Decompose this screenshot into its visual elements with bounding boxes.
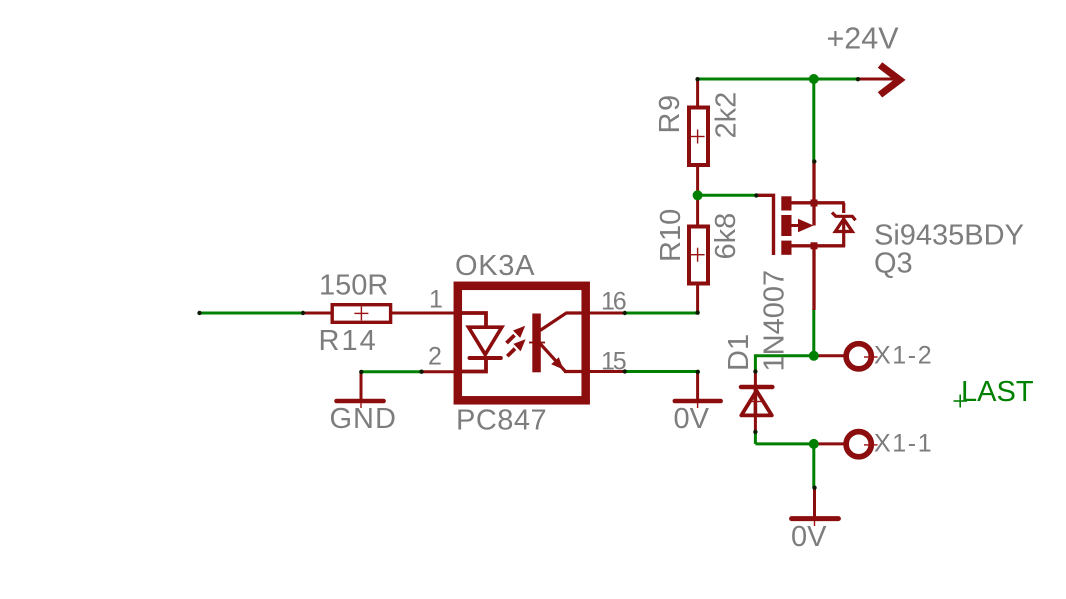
wire X1-1 node down to 0V: [812, 444, 815, 488]
wire red 0V pin left: [696, 372, 699, 401]
svg-text:15: 15: [601, 348, 626, 376]
connector pad X1-2: [846, 344, 871, 369]
svg-text:D1: D1: [723, 334, 755, 371]
svg-text:16: 16: [601, 288, 626, 316]
LED inside optocoupler: [461, 313, 486, 328]
wire red R14 right lead / opto pin1: [392, 312, 456, 315]
transistor inside optocoupler: [532, 314, 541, 373]
svg-text:6k8: 6k8: [710, 213, 742, 260]
svg-text:0V: 0V: [791, 521, 827, 553]
wire pin15 to 0V: [625, 370, 698, 373]
wire red opto pin15 stub: [589, 370, 625, 373]
MOSFET source line: [792, 201, 845, 204]
supply 0V symbol bottom: [792, 516, 839, 521]
MOSFET junction squares: [811, 200, 818, 207]
wire red D1 anode pin: [754, 414, 757, 432]
resistor R9: [689, 108, 708, 166]
svg-text:2k2: 2k2: [711, 92, 743, 139]
light arrow 1: [507, 335, 515, 343]
node junction dot X1-2: [809, 351, 819, 361]
svg-text:OK3A: OK3A: [455, 250, 535, 282]
wire red R14 left lead: [302, 312, 331, 315]
svg-text:PC847: PC847: [456, 405, 547, 437]
wire input net left: [198, 312, 303, 315]
svg-text:0V: 0V: [674, 403, 710, 435]
svg-text:150R: 150R: [319, 270, 388, 302]
svg-text:1: 1: [429, 286, 443, 314]
svg-text:R9: R9: [654, 93, 686, 133]
wire red X1-2 stub: [815, 354, 845, 357]
svg-text:GND: GND: [330, 403, 397, 435]
wire D1 anode vertical: [754, 432, 757, 444]
connector pad X1-1: [846, 432, 871, 457]
wire red R10 top pin: [696, 195, 699, 225]
wire Q3 drain down: [812, 309, 815, 356]
diode D1 1N4007: [741, 385, 773, 389]
MOSFET channel bars: [781, 196, 791, 210]
svg-text:2: 2: [428, 343, 442, 371]
transistor Q3: P-MOSFET gate lead: [756, 195, 774, 255]
wire red 0V bottom pin: [813, 488, 816, 517]
wire red Q3 drain pin: [812, 245, 815, 310]
svg-text:LAST: LAST: [961, 376, 1034, 408]
wire D1 cathode vertical: [754, 354, 757, 371]
svg-text:R14: R14: [319, 325, 378, 357]
wire red Q3 source pin: [812, 161, 815, 204]
wire red X1-1 stub: [815, 442, 845, 445]
supply +24V arrow symbol: [878, 62, 906, 97]
svg-text:X1-2: X1-2: [874, 342, 933, 370]
wire red R10 bottom pin: [696, 285, 699, 314]
svg-text:Q3: Q3: [874, 247, 913, 279]
MOSFET bulk vertical to source: [812, 203, 815, 226]
wire red opto pin2 stub: [421, 370, 456, 373]
wire +24V drop to Q3 source: [812, 79, 815, 161]
optocoupler OK3A box (PC847): [458, 286, 586, 401]
wire pin16 to R10: [625, 312, 698, 315]
svg-text:1N4007: 1N4007: [759, 270, 791, 372]
svg-text:X1-1: X1-1: [874, 429, 933, 457]
ground GND symbol: [337, 399, 384, 404]
node junction dot gate tap: [693, 190, 703, 200]
pin connection dots: [197, 311, 201, 315]
node junction dot X1-1: [809, 439, 819, 449]
resistor R10: [689, 227, 708, 284]
MOSFET bulk stub and arrow: [792, 224, 800, 227]
MOSFET drain line: [792, 244, 846, 247]
wire X1-2 node horizontal: [755, 354, 813, 357]
wire red D1 cathode pin: [754, 372, 757, 389]
wire pin2 to GND: [361, 370, 421, 373]
wire R9/R10 tap to gate: [698, 194, 756, 197]
supply 0V symbol at pin15: [675, 399, 721, 404]
node junction dot +24V: [809, 74, 819, 84]
resistor R14: [332, 305, 390, 323]
svg-text:R10: R10: [655, 209, 687, 262]
wire red +24V supply tail: [858, 78, 894, 81]
wire X1-1 node horizontal: [755, 442, 813, 445]
svg-text:+24V: +24V: [827, 21, 900, 55]
wire red R9 bottom pin: [696, 166, 699, 195]
wire red GND pin: [360, 372, 363, 400]
light arrow 2: [507, 349, 515, 357]
wire red R9 top pin: [696, 79, 699, 106]
wire red opto pin16 stub: [589, 312, 625, 315]
body diode of Q3: [842, 203, 845, 213]
wire +24V horizontal: [696, 78, 858, 81]
